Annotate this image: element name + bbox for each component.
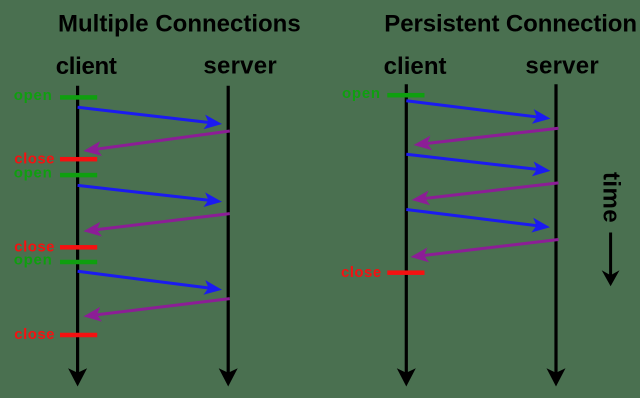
request arrow 2 (right) <box>406 154 546 170</box>
response arrow 2 (right) <box>416 183 559 200</box>
close bar 2 (left) <box>60 245 97 250</box>
svg-text:close: close <box>14 326 55 343</box>
svg-text:open: open <box>14 87 53 104</box>
close bar 3 (left) <box>60 333 97 338</box>
svg-text:server: server <box>203 53 277 80</box>
server lifeline (right) <box>554 84 557 376</box>
svg-text:client: client <box>384 53 447 80</box>
time arrowhead <box>602 270 620 286</box>
client lifeline (left) <box>76 86 79 376</box>
response arrow 3 (right) <box>415 240 559 257</box>
svg-text:close: close <box>341 264 382 281</box>
request arrow 1 (left) <box>78 107 218 123</box>
svg-text:Persistent Connection: Persistent Connection <box>384 10 637 37</box>
svg-text:open: open <box>14 165 53 182</box>
close bar 1 (left) <box>60 157 97 162</box>
close bar (right) <box>387 270 424 275</box>
server lifeline arrowhead (right) <box>547 368 566 386</box>
client lifeline (right) <box>405 84 408 376</box>
svg-text:open: open <box>342 85 381 102</box>
open bar 1 (left) <box>60 95 97 100</box>
open bar 2 (left) <box>60 173 97 178</box>
request arrow 3 (right) <box>406 210 545 227</box>
response arrow 1 (left) <box>88 131 230 150</box>
svg-text:server: server <box>525 53 599 80</box>
time arrow shaft <box>609 233 612 279</box>
svg-text:open: open <box>14 252 53 269</box>
server lifeline (left) <box>227 86 230 376</box>
svg-text:client: client <box>56 53 117 80</box>
client lifeline arrowhead (right) <box>397 368 416 386</box>
server lifeline arrowhead (left) <box>219 368 238 386</box>
svg-text:time: time <box>598 172 625 223</box>
client lifeline arrowhead (left) <box>68 368 87 386</box>
open bar 3 (left) <box>60 260 97 265</box>
request arrow 2 (left) <box>78 185 218 201</box>
response arrow 1 (right) <box>418 128 559 144</box>
response arrow 3 (left) <box>88 299 230 316</box>
svg-text:Multiple Connections: Multiple Connections <box>58 10 301 37</box>
request arrow 3 (left) <box>78 271 218 289</box>
open bar (right) <box>387 93 424 98</box>
response arrow 2 (left) <box>88 214 230 231</box>
request arrow 1 (right) <box>406 101 546 118</box>
